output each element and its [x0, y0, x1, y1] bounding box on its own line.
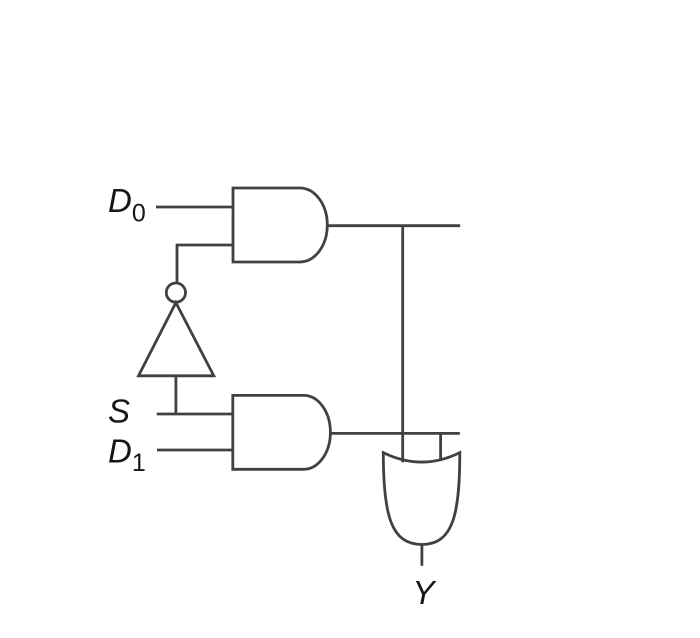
- wire Y output: [420, 546, 423, 566]
- AND gate U1 (top): [233, 188, 327, 262]
- OR gate U3 (pointing down): [383, 453, 460, 545]
- wire S input: [157, 413, 233, 416]
- svg-text:Y: Y: [413, 574, 437, 611]
- inverter output bubble: [166, 283, 185, 302]
- svg-text:S: S: [108, 393, 130, 430]
- svg-text:D1: D1: [108, 433, 146, 478]
- inverter NOT gate triangle: [139, 303, 214, 376]
- AND gate U2 (bottom): [233, 395, 331, 469]
- wire AND2 output: [330, 432, 459, 435]
- wire AND1 second input (from inverter, corner): [177, 245, 233, 283]
- svg-text:D0: D0: [108, 182, 146, 227]
- wire inverter input stub: [174, 376, 177, 414]
- wire OR second input stub: [439, 433, 442, 461]
- wire from AND1 output down to OR input: [401, 226, 404, 463]
- wire D0 input: [156, 206, 233, 209]
- wire D1 input: [157, 449, 233, 452]
- wire AND1 output: [327, 224, 460, 227]
